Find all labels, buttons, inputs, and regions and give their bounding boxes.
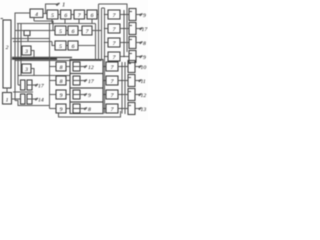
gate Da pair box 2 — [27, 80, 32, 90]
svg-text:1: 1 — [6, 98, 9, 104]
block 3a — [22, 46, 31, 55]
wire block 8 output to top bus — [97, 14, 99, 16]
svg-text:3: 3 — [24, 67, 28, 73]
wire frame1 to RB1 — [103, 66, 106, 68]
wire RT3 output — [120, 42, 129, 44]
wire left bus line 3 — [20, 24, 22, 76]
wire drop from block 4 into line A — [33, 18, 35, 22]
wire inter bus bottom v x122 — [121, 62, 123, 114]
arrow in frame 1 — [80, 66, 84, 68]
svg-text:1: 1 — [62, 2, 65, 9]
arrow output 17 — [136, 28, 140, 30]
wire line B under row — [17, 23, 96, 25]
svg-text:12: 12 — [141, 93, 147, 99]
arrow output 12 — [135, 94, 139, 96]
wire 8b to frame 2 — [66, 80, 70, 82]
frame unit 1 — [70, 60, 103, 74]
block 5b — [55, 41, 66, 50]
svg-text:3: 3 — [24, 49, 28, 55]
block 14 bottom left — [3, 93, 12, 105]
arrow output 10 — [135, 66, 139, 68]
wire right bus vA — [95, 24, 97, 61]
svg-text:6: 6 — [64, 13, 67, 19]
gate NT4 — [129, 51, 136, 63]
gate Db pair box 1 — [21, 94, 26, 104]
svg-text:9: 9 — [60, 107, 63, 113]
arrow output 14 — [32, 98, 35, 100]
svg-text:8: 8 — [88, 107, 91, 113]
wire bus stub RT2 — [105, 28, 109, 30]
wire frame4 to RB4 — [103, 108, 106, 110]
frame unit 2 — [70, 74, 103, 89]
svg-text:9: 9 — [60, 93, 63, 99]
wire frame3 to RB3 — [103, 94, 106, 96]
wire 9b to frame 4 — [66, 108, 70, 110]
svg-text:5: 5 — [51, 13, 54, 19]
wire feed to 8b — [50, 80, 57, 82]
gate NB3 — [128, 89, 135, 101]
block 7 top row — [74, 10, 85, 19]
wire horizontal mid-left lower — [13, 41, 52, 43]
arrow output 11 — [135, 80, 139, 82]
wire block 3a output — [31, 51, 34, 58]
block 6a — [68, 26, 78, 35]
junction dot feed vertical — [49, 23, 50, 24]
wire frame2 to RB2 — [103, 80, 106, 82]
svg-text:6: 6 — [91, 13, 94, 19]
wire dark band lower — [15, 60, 102, 62]
wire between gates — [13, 91, 33, 93]
svg-text:2: 2 — [6, 45, 9, 51]
cell in frame 2 — [73, 76, 80, 85]
block RT1 — [108, 10, 120, 19]
arrow in frame 3 — [80, 94, 84, 96]
block 5 top row — [47, 10, 58, 19]
wire bus stub RT3 — [105, 42, 109, 44]
block 3b — [22, 64, 31, 73]
wire drop from block 5 — [51, 19, 53, 24]
wire bus stub RT4 — [105, 56, 109, 58]
wire dark band upper — [12, 57, 72, 59]
block 4 — [30, 9, 43, 18]
block 8 top row — [87, 10, 97, 19]
svg-text:10: 10 — [141, 65, 147, 71]
wire to block 5b input — [52, 42, 55, 46]
svg-text:11: 11 — [141, 79, 146, 85]
block 2 tall register — [3, 20, 11, 88]
block 8a — [56, 62, 66, 71]
wire horizontal y75 — [18, 75, 70, 77]
wire right bus vB — [98, 4, 100, 61]
block RB1 — [106, 62, 118, 71]
block RB2 — [106, 76, 118, 85]
wire 6a to 7a — [78, 30, 82, 32]
svg-text:9: 9 — [143, 55, 146, 61]
svg-text:8: 8 — [60, 65, 63, 71]
wire loop to 5a input — [30, 30, 53, 32]
block 6b — [68, 41, 78, 50]
svg-text:6: 6 — [72, 29, 75, 35]
block RB4 — [106, 104, 118, 113]
block 5a — [55, 26, 66, 35]
wire feed to 8a — [50, 66, 57, 68]
wire loop box mid-left — [24, 31, 30, 36]
svg-text:5: 5 — [59, 29, 62, 35]
wire RB4 output — [118, 108, 128, 110]
wire bus stub RT1 — [105, 14, 109, 16]
wire 6 to 7 — [71, 14, 74, 16]
wire feed to 9a — [50, 94, 57, 96]
wire 8a to frame 1 — [66, 66, 70, 68]
gate NB4 — [128, 103, 135, 115]
wire horizontal mid-left upper — [12, 38, 50, 40]
gate NB1 — [128, 61, 135, 73]
wire bottom return — [59, 111, 121, 117]
wire 9a to frame 3 — [66, 94, 70, 96]
wire 5 to 6 — [58, 14, 61, 16]
gate NT3 — [129, 37, 136, 49]
wire right bus vD long — [104, 8, 106, 114]
wire output arrow 1 riser — [46, 4, 57, 14]
block 8b — [56, 76, 66, 85]
wire 6b output to bus — [78, 45, 96, 47]
svg-text:4: 4 — [35, 12, 38, 18]
gate NT1 — [129, 9, 136, 21]
wire top bus over to right — [99, 4, 128, 9]
wire drop from block 6 — [64, 19, 66, 24]
wire RB3 output — [118, 94, 128, 96]
svg-text:8: 8 — [60, 79, 63, 85]
block 9a — [56, 90, 66, 99]
arrow output 9b — [136, 56, 140, 58]
block RB3 — [106, 90, 118, 99]
svg-text:14: 14 — [38, 98, 44, 104]
cell in frame 3 — [73, 90, 80, 99]
gate NT2 — [129, 23, 136, 35]
svg-text:12: 12 — [88, 65, 94, 71]
wire drop from block 8 — [91, 19, 93, 24]
dots RB stubs — [104, 66, 105, 67]
wire 5a to 6a — [66, 30, 68, 32]
wire right bus vC — [101, 8, 103, 61]
frame unit 3 — [70, 88, 103, 102]
wire 7a output to bus — [92, 30, 102, 32]
wire tall box to block 14 — [6, 88, 8, 93]
wire block 14 output — [12, 98, 21, 100]
svg-text:9: 9 — [88, 93, 91, 99]
wire inter bus bottom v x125 — [124, 62, 126, 114]
wire bottom left link — [15, 101, 50, 106]
wire 4 to 5 — [43, 13, 47, 15]
arrow output 17a — [32, 84, 35, 86]
wire inter bus top v x127 — [126, 4, 128, 52]
wire input to block 4 top left — [15, 13, 30, 101]
wire bus bridge — [102, 7, 105, 9]
gate NB2 — [128, 75, 135, 87]
wire inter bus top v x124 — [123, 10, 125, 57]
wire feed vertical x49 — [49, 24, 51, 109]
svg-text:8: 8 — [143, 41, 146, 47]
wire loop down — [27, 36, 29, 42]
wire RT4 output — [120, 56, 129, 58]
wire feed to 9b — [50, 108, 57, 110]
wire left bus line 2 — [17, 24, 19, 86]
wire RT1 output — [120, 14, 129, 16]
wire input stub left edge — [1, 18, 4, 20]
arrow output 8 — [136, 42, 140, 44]
block 9b — [56, 104, 66, 113]
svg-text:6: 6 — [72, 44, 75, 50]
wire drop from block 7 — [78, 19, 80, 24]
wire block 3b output — [31, 69, 34, 76]
block RT2 — [108, 24, 120, 33]
arrow in frame 4 — [80, 108, 84, 110]
block RT4 — [108, 52, 120, 61]
svg-text:9: 9 — [143, 13, 146, 19]
wire line A under row — [34, 21, 55, 31]
gate Db pair box 2 — [27, 94, 32, 104]
arrow in frame 2 — [80, 80, 84, 82]
wire loop box input — [15, 30, 24, 32]
svg-text:17: 17 — [142, 27, 149, 33]
arrow output 9 — [136, 14, 140, 16]
gate Da pair box 1 — [21, 80, 26, 90]
block 6 top row — [61, 10, 72, 19]
wire 5b to 6b — [66, 45, 68, 47]
wire RT2 output — [120, 28, 129, 30]
svg-text:13: 13 — [141, 107, 147, 113]
wire band dark overlay — [12, 58, 57, 60]
svg-text:5: 5 — [59, 44, 62, 50]
wire RB2 output — [118, 80, 128, 82]
frame unit 4 — [70, 102, 103, 114]
arrowhead output 1 — [56, 3, 60, 5]
block RT3 — [108, 38, 120, 47]
wire RB1 output — [118, 66, 128, 68]
cell in frame 1 — [73, 62, 80, 71]
cell in frame 4 — [73, 104, 80, 113]
wire 7 to 8 — [85, 14, 88, 16]
wire input Da — [18, 84, 21, 86]
block 7a — [82, 26, 92, 35]
arrow output 13 — [135, 108, 139, 110]
